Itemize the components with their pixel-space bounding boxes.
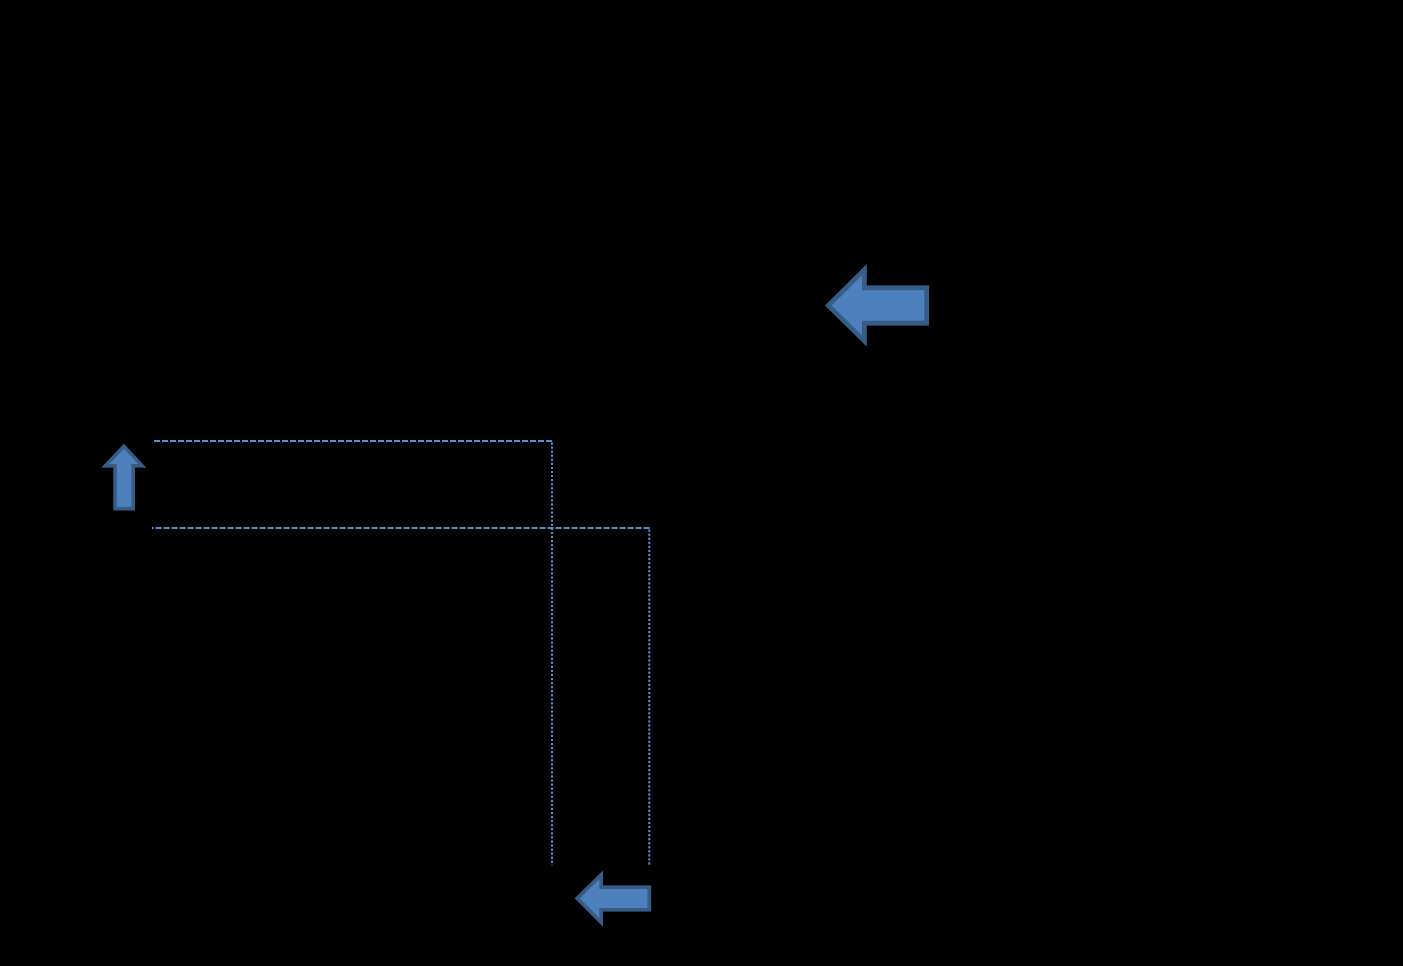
dotted vertical line 2	[648, 530, 650, 865]
dotted vertical line 1	[551, 443, 553, 866]
large left block arrow	[828, 270, 926, 341]
up block arrow	[105, 446, 142, 508]
dashed horizontal line 2	[152, 527, 651, 529]
dashed horizontal line 1	[154, 440, 552, 442]
small left block arrow	[577, 875, 649, 923]
